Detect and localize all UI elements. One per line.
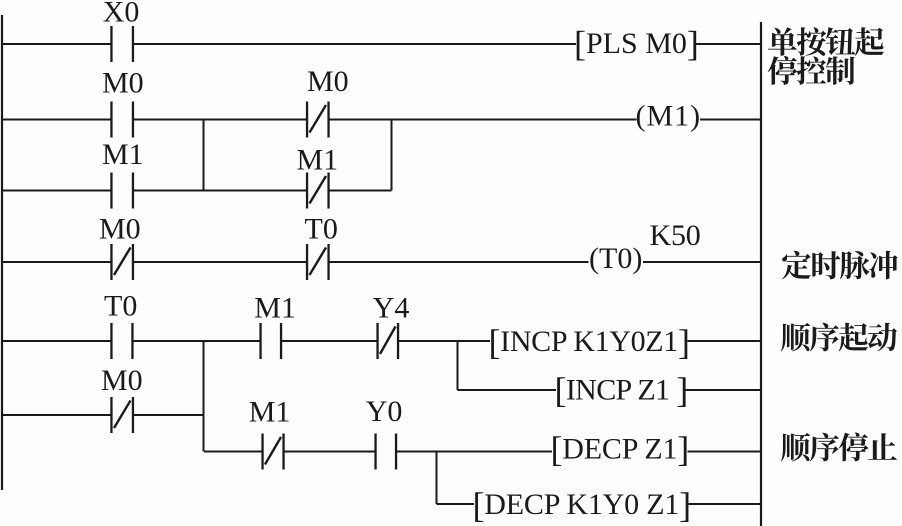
junction A vertical <box>203 120 205 191</box>
junction B vertical <box>391 120 393 191</box>
wire rung4b seg b <box>686 389 761 391</box>
label 停控制 (line2) <box>768 56 855 85</box>
contact Y0 (NO) <box>374 434 397 470</box>
contact M0 (NC) <box>306 102 330 138</box>
wire rung4 seg b <box>133 340 260 342</box>
wire rung4c seg b <box>133 414 204 416</box>
wire rung3 seg a <box>3 261 112 263</box>
wire rung4 seg d <box>399 340 491 342</box>
contact X0 (NO) <box>110 26 134 62</box>
wire rung5b seg a <box>437 503 475 505</box>
contact M0 (NC) rung3 <box>110 244 134 280</box>
wire rung4 seg e <box>688 340 761 342</box>
svg-text:T0: T0 <box>104 290 137 323</box>
wire rung2 seg a <box>3 119 112 121</box>
wire rung1 seg a <box>3 43 112 45</box>
svg-text:Y0: Y0 <box>366 395 403 428</box>
svg-text:[DECP K1Y0 Z1]: [DECP K1Y0 Z1] <box>473 485 691 525</box>
wire rung4 seg a <box>3 340 112 342</box>
svg-text:M1: M1 <box>254 292 296 325</box>
svg-text:K50: K50 <box>650 219 701 252</box>
svg-text:[INCP Z1 ]: [INCP Z1 ] <box>555 370 688 410</box>
wire rung1 seg b <box>133 43 576 45</box>
contact M1 (NO) rung4 <box>259 323 282 359</box>
wire rung4b seg a <box>458 389 557 391</box>
svg-text:M0: M0 <box>99 213 141 246</box>
junction D vertical <box>457 341 459 390</box>
svg-text:[PLS M0]: [PLS M0] <box>574 24 699 64</box>
svg-text:Y4: Y4 <box>373 292 410 325</box>
svg-text:M0: M0 <box>307 65 349 98</box>
contact T0 (NC) rung3 <box>306 244 330 280</box>
wire rung3 seg c <box>329 261 589 263</box>
contact M1 (NC) rung5 <box>261 434 284 470</box>
contact Y4 (NC) <box>376 323 399 359</box>
contact T0 (NO) rung4 <box>110 323 133 359</box>
wire rung1 seg c <box>696 43 760 45</box>
label 定时脉冲 <box>782 251 898 280</box>
wire rung3 seg b <box>133 261 307 263</box>
wire rung2b seg a <box>3 190 112 192</box>
svg-text:(T0): (T0) <box>589 242 642 275</box>
svg-text:(M1): (M1) <box>636 100 702 133</box>
svg-text:[INCP K1Y0Z1]: [INCP K1Y0Z1] <box>489 322 690 362</box>
label 顺序起动 <box>781 323 897 352</box>
svg-text:M0: M0 <box>101 364 143 397</box>
svg-text:X0: X0 <box>103 0 140 29</box>
label 顺序停止 <box>781 433 897 462</box>
left power rail <box>1 15 3 490</box>
contact M1 (NO) <box>110 173 134 209</box>
contact M1 (NC) <box>306 173 330 209</box>
wire rung2 seg b <box>133 119 307 121</box>
wire rung5 seg c <box>397 451 553 453</box>
svg-text:M0: M0 <box>102 67 144 100</box>
wire rung5b seg b <box>689 503 761 505</box>
wire rung5 seg d <box>688 451 761 453</box>
svg-text:T0: T0 <box>305 213 338 246</box>
wire rung5 seg b <box>285 451 375 453</box>
contact M0 (NO) <box>110 102 134 138</box>
wire rung2 seg d <box>700 119 760 121</box>
wire rung3 seg d <box>643 261 760 263</box>
svg-text:M1: M1 <box>249 396 291 429</box>
wire rung5 seg a <box>204 451 262 453</box>
wire rung4 seg c <box>282 340 377 342</box>
junction C vertical <box>203 341 205 452</box>
junction E vertical <box>436 452 438 505</box>
wire rung2 seg c <box>329 119 637 121</box>
svg-text:[DECP Z1]: [DECP Z1] <box>551 429 690 469</box>
right power rail <box>760 22 762 526</box>
wire rung4c seg a <box>3 414 111 416</box>
svg-text:M1: M1 <box>297 144 339 177</box>
wire rung2b seg b <box>133 190 307 192</box>
wire rung2b seg c <box>329 190 392 192</box>
svg-text:M1: M1 <box>102 138 144 171</box>
contact M0 (NC) branch <box>110 397 134 433</box>
label 单按钮起 (line1) <box>768 27 884 56</box>
